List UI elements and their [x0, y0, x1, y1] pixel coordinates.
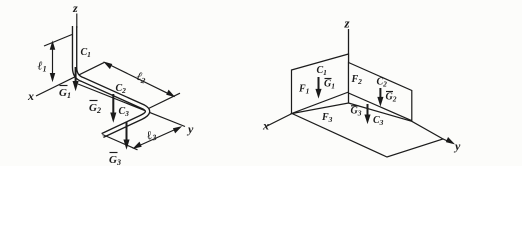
svg-text:z: z [72, 1, 78, 15]
extension line for l3 (from rod end along y direction) [103, 135, 138, 150]
svg-text:y: y [453, 139, 461, 153]
x axis (extends up-right past origin as extension line for l2) [36, 62, 105, 96]
extension line at hairpin bend for l2 (along x direction) [149, 93, 181, 108]
dimension l1 extension line (top, from rod along x direction) [44, 35, 72, 47]
force arrow G3 (right figure) [365, 104, 370, 123]
svg-text:x: x [262, 119, 269, 133]
z axis (left figure) [76, 14, 78, 29]
svg-text:z: z [344, 16, 351, 31]
force arrow G2 [111, 94, 116, 121]
vertical plate F2 (right, y-z plane) [349, 63, 412, 121]
vertical plate F1 (left, x-z plane) [292, 54, 349, 114]
force arrow G1 [73, 67, 78, 90]
force arrow G3 [124, 122, 129, 149]
svg-text:x: x [27, 89, 34, 103]
dimension l2 line with arrows [105, 62, 174, 96]
rod (tube): vertical along z, bend, along y, hairpin, along x [75, 26, 148, 136]
force arrow G1 (right figure) [316, 77, 321, 97]
force arrow G2 (right figure) [378, 88, 383, 105]
x axis (right figure) [266, 114, 292, 127]
z axis (right figure) [348, 29, 350, 103]
y axis (left figure) [78, 84, 185, 127]
svg-text:y: y [186, 122, 194, 136]
horizontal plate F3 [292, 103, 443, 157]
dimension l1 line with arrows [50, 42, 54, 80]
dimension l3 line with arrows [134, 127, 181, 148]
y axis with arrow (right figure) [443, 138, 454, 144]
